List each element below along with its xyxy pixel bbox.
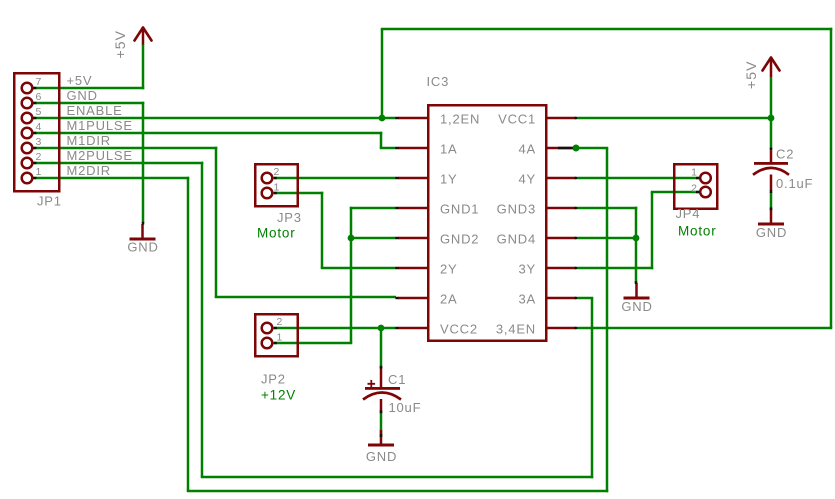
svg-text:3,4EN: 3,4EN [496,321,536,336]
connector JP3 body [255,164,298,206]
wire GND4 pin horizontal [578,237,637,240]
wire M1DIR net: to IC3 2A pin [215,296,396,299]
wire ground net vertical GND3-GND4 to GND symbol [635,207,638,283]
svg-text:IC3: IC3 [427,74,450,89]
svg-text:1A: 1A [440,141,458,156]
svg-text:1: 1 [274,181,280,193]
wire M2DIR net: right vertical up to 4A row [606,148,609,492]
wire GND net: vertical down to GND symbol [142,102,145,223]
pin-wire joints (dark transition marks) [33,87,36,89]
svg-text:GND: GND [127,240,158,255]
IC3 right pin stubs [547,117,576,120]
ground symbol below JP1 [141,224,144,238]
junction ground net at GND2 row [348,235,355,242]
wire JP2 pin1 horizontal [274,342,352,345]
wire GND2 pin horizontal [350,237,396,240]
wire ENABLE net: vertical up from junction to top rail [381,29,384,118]
svg-text:GND4: GND4 [497,231,536,246]
svg-text:2Y: 2Y [440,261,458,276]
connector JP4 body [674,164,717,209]
junction ENABLE at 1,2EN [379,115,386,122]
IC3 left pin stubs [398,117,428,120]
junction +12V at VCC2 / C1 [378,325,385,332]
wire 4Y net: IC3 4Y pin to JP4 pin1 [578,177,699,180]
svg-text:VCC1: VCC1 [498,111,536,126]
wire GND3 pin horizontal [578,207,637,210]
JP2 pin circles [262,323,273,334]
wire VCC1 net: junction down to capacitor C2 [770,118,773,150]
wire M2DIR net: JP1 pin1 to corner [33,177,189,180]
wire 3Y net: into JP4 pin2 [651,191,699,194]
wire ground net vertical GND1-GND2-JP2 pin1 [350,207,353,343]
capacitor C1 lower lead [380,399,383,413]
svg-text:1: 1 [691,166,697,178]
wire M2PULSE net: bottom horizontal [201,476,594,479]
wire 3Y net: IC3 3Y pin horizontal [578,267,653,270]
svg-text:GND: GND [67,88,98,103]
junction VCC1 / +5V / C2 [768,115,775,122]
svg-text:VCC2: VCC2 [440,321,478,336]
svg-text:JP4: JP4 [676,206,701,221]
svg-text:Motor: Motor [257,226,296,241]
JP3 pin circles [262,173,273,184]
svg-text:3A: 3A [518,291,536,306]
connector JP2 body [255,314,298,356]
JP1 pin circles [22,83,33,94]
wire M2PULSE net: JP1 pin2 to corner [33,162,203,165]
svg-text:GND: GND [621,299,652,314]
svg-text:3: 3 [36,136,42,148]
svg-text:M2PULSE: M2PULSE [67,148,133,163]
wire M2DIR net: long vertical down [187,177,190,491]
wire M1DIR net: vertical down [215,147,218,297]
svg-text:Motor: Motor [678,224,717,239]
wire +12V net: JP2 pin2 to IC3 VCC2 pin [274,327,396,330]
capacitor C2 lower lead [770,175,773,192]
ground symbol below C2 [770,209,773,223]
capacitor C2 top plate [754,162,788,165]
wire M2DIR net: bottom outer horizontal [187,490,609,493]
wire VCC1 net: IC3 VCC1 pin to +5V column [578,117,772,120]
svg-text:ENABLE: ENABLE [67,103,123,118]
junction ground net at GND4 row [633,235,640,242]
svg-text:1: 1 [277,331,283,343]
svg-text:2A: 2A [440,291,458,306]
wire to IC3 2Y pin [321,267,396,270]
svg-text:0.1uF: 0.1uF [776,176,813,191]
wire M1PULSE net: into IC3 1A pin [380,147,396,150]
svg-text:1Y: 1Y [440,171,458,186]
svg-text:10uF: 10uF [389,400,422,415]
wire C1 lower lead to GND symbol [380,412,383,437]
junction dot at 4A pin (redrawn on top) [573,145,580,152]
svg-text:GND: GND [756,225,787,240]
wire M2DIR net: into IC3 4A pin [576,147,608,150]
wire ENABLE net: JP1 pin5 to IC3 1,2EN pin [33,117,396,120]
capacitor C1 upper lead [380,367,383,388]
IC U1 IC3 body [428,105,546,341]
wire GND1 pin horizontal [350,207,396,210]
svg-text:+5V: +5V [112,30,128,59]
svg-text:GND3: GND3 [497,201,536,216]
svg-text:JP3: JP3 [277,210,302,225]
svg-text:C2: C2 [776,147,794,162]
ground symbol below GND3/GND4 [635,283,638,297]
wire GND net: JP1 pin6 to column [33,102,144,105]
wire JP3 pin2 to IC3 1Y pin [274,177,396,180]
wire M1PULSE net: vertical jog down [380,132,383,148]
wire M2PULSE net: 3A pin stub wire [578,297,593,300]
wire M2PULSE net: right vertical up to IC3 3A pin [591,298,594,478]
wire +5V net: JP1 pin7 to supply column [33,87,144,90]
wire M1PULSE net: JP1 pin4 to corner [33,132,382,135]
capacitor C2 curved bottom plate [753,168,789,175]
svg-text:C1: C1 [388,372,406,387]
wire JP3 pin1 horizontal [274,192,323,195]
4A pin overlap dark segment [558,147,575,150]
svg-text:7: 7 [36,76,42,88]
svg-text:5: 5 [36,106,42,118]
svg-text:+5V: +5V [67,73,93,88]
wire 3Y net: vertical up [651,192,654,269]
ground symbol below C1 [380,430,383,444]
junction at 4A pin [573,145,580,152]
svg-text:+5V: +5V [743,60,759,89]
svg-text:JP1: JP1 [37,194,62,209]
svg-text:2: 2 [277,316,283,328]
svg-text:GND2: GND2 [440,231,479,246]
JP4 pin circles [700,173,711,184]
wire ENABLE net: right vertical rail [830,28,833,328]
svg-text:2: 2 [274,166,280,178]
svg-text:2: 2 [36,151,42,163]
supply symbol +5V near JP1: arrow [135,28,152,41]
wire VCC1 net: vertical from +5V arrow down to junction [770,77,773,118]
capacitor C1 curved bottom plate [363,393,401,400]
wire C2 lower lead to GND symbol [770,192,773,210]
wire +5V net: vertical up to +5V arrow [142,44,145,89]
svg-text:+12V: +12V [261,388,296,403]
wire JP3 pin1 vertical down [321,192,324,268]
connector JP1 body [14,73,59,191]
wire ENABLE net: from right rail to IC3 3,4EN pin [578,327,832,330]
svg-text:3Y: 3Y [518,261,536,276]
svg-text:GND: GND [366,449,397,464]
svg-text:6: 6 [36,91,42,103]
supply symbol +5V near C2: arrow [763,58,780,71]
svg-text:4A: 4A [518,141,536,156]
svg-text:GND1: GND1 [440,201,479,216]
svg-text:JP2: JP2 [261,372,286,387]
capacitor C2 upper lead [770,151,773,163]
svg-text:1,2EN: 1,2EN [440,111,480,126]
wire M2PULSE net: long vertical down [201,162,204,477]
svg-text:1: 1 [36,166,42,178]
svg-text:M2DIR: M2DIR [67,163,111,178]
capacitor C1 top plate [365,387,400,390]
wire +12V net: down to capacitor C1 [380,328,383,368]
capacitor C1 plus sign [368,380,376,388]
svg-text:M1PULSE: M1PULSE [67,118,133,133]
svg-text:4: 4 [36,121,42,133]
svg-text:M1DIR: M1DIR [67,133,111,148]
wire ENABLE net: top horizontal rail [381,28,833,31]
wire M1DIR net: JP1 pin3 to corner [33,147,217,150]
stem joints at capacitors and grounds [142,222,145,225]
svg-text:4Y: 4Y [518,171,536,186]
